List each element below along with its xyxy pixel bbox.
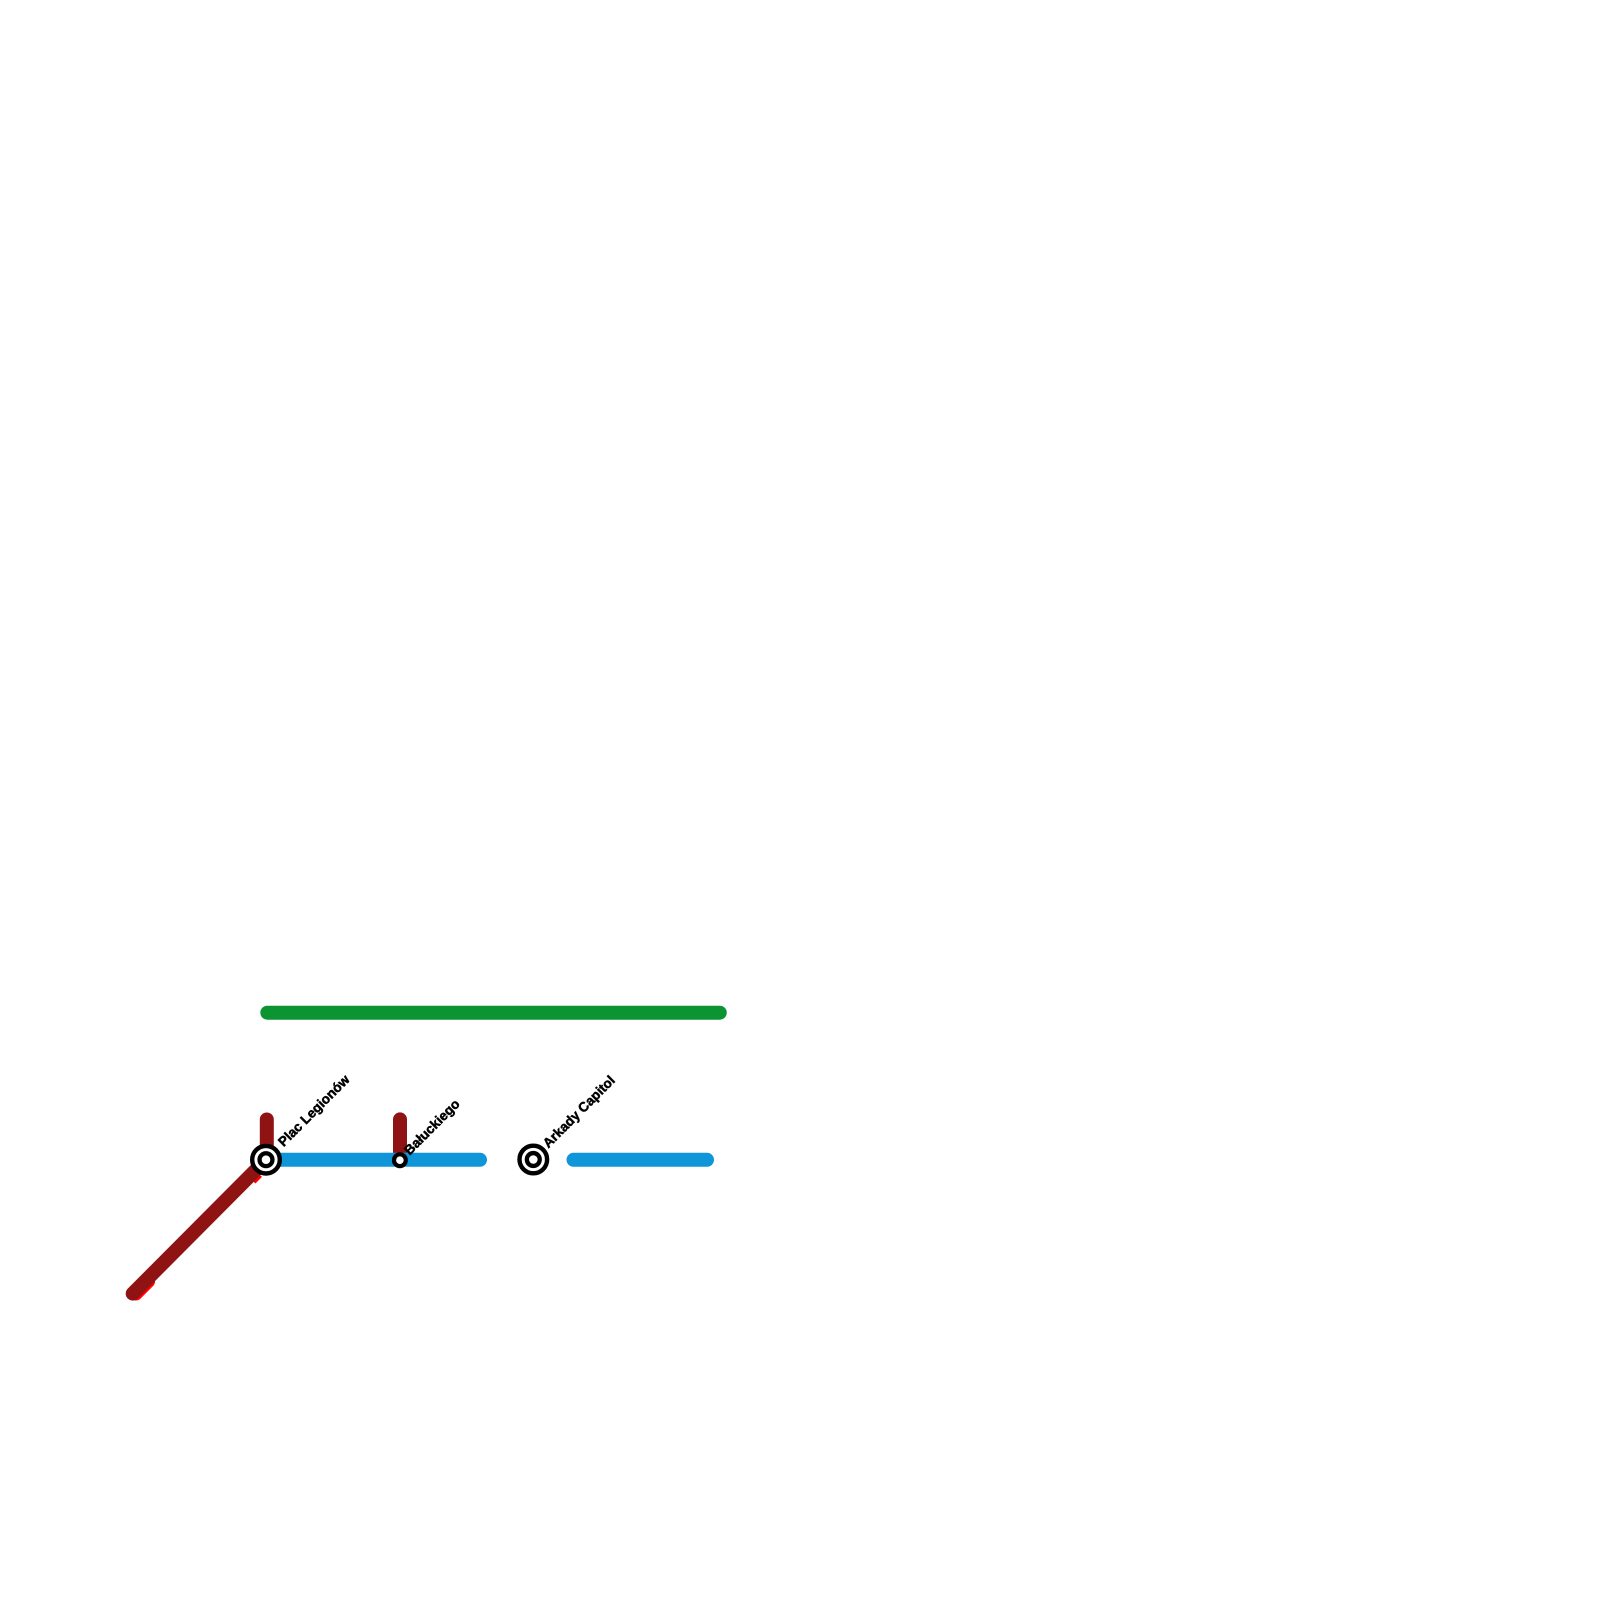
interchange station Arkady Capitol	[520, 1146, 548, 1174]
dark red diagonal line	[133, 1160, 266, 1294]
red line (bright underlay near lower cap)	[136, 1281, 149, 1294]
green line	[267, 1006, 720, 1020]
blue line segment B	[574, 1153, 708, 1167]
station Baluckiego	[394, 1154, 406, 1166]
dark red stub at Baluckiego	[393, 1119, 407, 1160]
interchange station Plac Legionow	[252, 1146, 280, 1174]
blue line segment A	[266, 1153, 480, 1167]
red line sliver near interchange	[255, 1176, 262, 1183]
dark red stub at Plac Legionow	[260, 1120, 274, 1160]
